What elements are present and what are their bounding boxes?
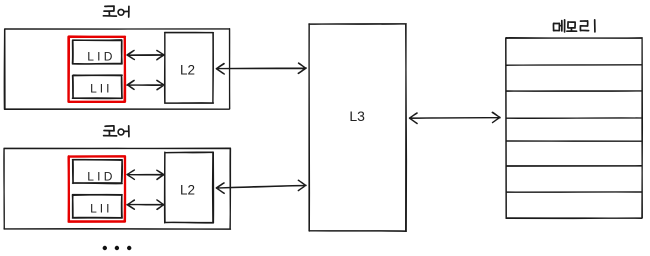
svg-text:LID: LID <box>87 50 115 64</box>
svg-text:L2: L2 <box>180 182 195 197</box>
svg-text:L2: L2 <box>180 63 195 78</box>
svg-text:LID: LID <box>87 169 115 183</box>
svg-text:LII: LII <box>90 201 112 215</box>
svg-text:LII: LII <box>90 82 112 96</box>
svg-text:L3: L3 <box>349 108 365 124</box>
